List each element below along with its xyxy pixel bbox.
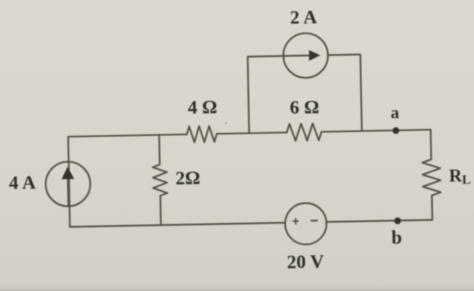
svg-text:4 Ω: 4 Ω	[188, 97, 218, 119]
bottom edge shadow	[0, 283, 474, 291]
svg-text:20 V: 20 V	[287, 252, 325, 274]
arrowhead of 2A source	[309, 50, 320, 61]
wire: bottom horizontal row	[70, 220, 432, 227]
wire: right vertical branch	[431, 130, 433, 220]
node a dot	[392, 127, 399, 134]
svg-text:a: a	[390, 103, 399, 122]
wire: left vertical branch	[68, 137, 70, 227]
voltage source 20V circle	[285, 203, 327, 245]
arrow line of 4A source	[67, 171, 70, 206]
plus sign inside 20V source	[293, 218, 299, 224]
resistor 6ohm	[287, 123, 322, 141]
current source 4A circle	[45, 161, 90, 206]
svg-text:2 A: 2 A	[290, 7, 318, 29]
svg-text:4 A: 4 A	[9, 173, 37, 195]
arrowhead of 4A source	[61, 167, 74, 180]
resistor 2ohm vertical	[152, 135, 168, 225]
wire: middle horizontal row	[68, 130, 430, 137]
svg-text:b: b	[391, 228, 402, 249]
resistor RL vertical	[422, 159, 441, 195]
tiny print speck	[225, 122, 227, 124]
svg-text:2Ω: 2Ω	[175, 168, 200, 189]
node b dot	[394, 217, 401, 224]
minus sign inside 20V source	[311, 220, 318, 222]
svg-text:6 Ω: 6 Ω	[290, 97, 320, 119]
resistor 4ohm	[187, 126, 217, 143]
arrow line of 2A source	[283, 54, 310, 57]
wire: 2A source loop	[248, 54, 362, 133]
current source 2A circle	[283, 33, 328, 78]
